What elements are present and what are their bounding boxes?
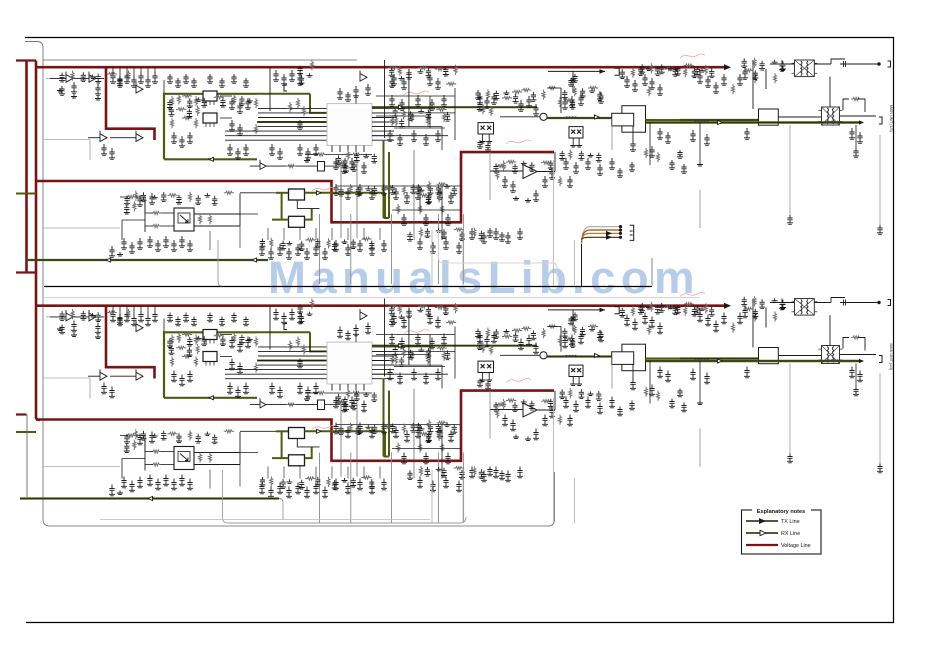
svg-text:TX Line: TX Line: [781, 519, 800, 525]
svg-text:Explanatory notes: Explanatory notes: [757, 509, 806, 515]
svg-text:MAIN UNIT (1/3): MAIN UNIT (1/3): [889, 105, 893, 132]
svg-text:RX Line: RX Line: [781, 531, 800, 537]
svg-text:ManualsLib.com: ManualsLib.com: [268, 252, 695, 303]
svg-text:MAIN UNIT (1/3): MAIN UNIT (1/3): [889, 344, 893, 371]
svg-text:Voltage Line: Voltage Line: [781, 543, 811, 549]
